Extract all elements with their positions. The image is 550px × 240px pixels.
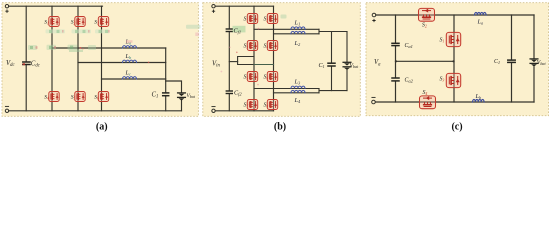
mosfet S1 (b) bbox=[247, 14, 257, 24]
mosfet S3 (c) bbox=[446, 73, 460, 87]
svg-text:L3: L3 bbox=[294, 78, 301, 85]
mosfet S3 bbox=[98, 17, 108, 27]
wire mid jog (b) bbox=[238, 57, 254, 65]
wire leg 3 (a) bbox=[101, 6, 103, 111]
speck red row2 (b) bbox=[236, 52, 238, 54]
capacitor Cf1 bbox=[226, 29, 232, 32]
wire phase a (a) bbox=[52, 47, 166, 49]
svg-text:Vbat: Vbat bbox=[350, 63, 360, 69]
speck red wire1 (a) bbox=[80, 47, 84, 50]
battery Vbat (c) bbox=[530, 59, 538, 67]
speck pink row1 (b) bbox=[258, 28, 260, 30]
speck green under wire1 (a) bbox=[69, 50, 83, 52]
panel (c) background bbox=[366, 3, 549, 116]
inductor Lb bbox=[123, 60, 137, 62]
mosfet S5 bbox=[75, 92, 85, 102]
terminal - (a) bbox=[5, 106, 8, 112]
wire mid link A-B (b) bbox=[254, 64, 274, 66]
mosfet S2 bbox=[75, 17, 85, 27]
inductor Lc bbox=[123, 77, 137, 79]
battery Vbat (a) bbox=[178, 93, 186, 101]
wire leg B (b) bbox=[273, 6, 275, 111]
speck pink left (b) bbox=[221, 71, 223, 73]
mosfet S6 (b) bbox=[267, 72, 277, 82]
gate annotation g3 bbox=[95, 29, 110, 33]
wire top rail (a) bbox=[9, 5, 103, 7]
wire right rail (c) bbox=[533, 15, 535, 102]
capacitor Ca2 bbox=[392, 78, 399, 81]
mosfet S4 (c) horizontal bbox=[420, 96, 436, 109]
speck green row1 (b) bbox=[281, 15, 287, 19]
gate annotation g2 bbox=[72, 29, 92, 33]
mosfet S3 (b) bbox=[247, 41, 257, 51]
svg-text:Lc: Lc bbox=[125, 70, 131, 77]
speck pink label La (a) bbox=[126, 40, 133, 43]
svg-text:Lb: Lb bbox=[475, 93, 482, 100]
speck pink Cf (b) bbox=[229, 47, 231, 49]
capacitor Cdc bbox=[23, 62, 30, 65]
mosfet S8 (b) bbox=[267, 100, 277, 110]
capacitor C1 (c) bbox=[508, 60, 515, 62]
wire phase b (a) bbox=[78, 62, 166, 64]
wire phase c (a) bbox=[102, 78, 166, 80]
wire leg A (b) bbox=[253, 6, 255, 111]
capacitor Ca1 bbox=[392, 43, 399, 45]
wire mid link Ca-S (c) bbox=[395, 60, 455, 62]
mosfet S2 (b) bbox=[267, 14, 277, 24]
inductor La (c) bbox=[475, 12, 487, 15]
wire join top pair (b) bbox=[319, 29, 347, 34]
svg-text:L2: L2 bbox=[294, 40, 301, 47]
wire L1 (b) bbox=[254, 28, 319, 30]
terminal + (c) bbox=[372, 13, 376, 22]
svg-text:Vbat: Vbat bbox=[537, 60, 547, 66]
wire leg 1 (a) bbox=[51, 6, 53, 111]
inductor L4 bbox=[291, 90, 305, 92]
wire bottom rail (b) bbox=[215, 110, 273, 112]
wire S leg (c) bbox=[453, 15, 455, 102]
inductor L1 bbox=[291, 27, 305, 29]
svg-text:(b): (b) bbox=[274, 122, 286, 133]
mosfet S1 (c) bbox=[446, 32, 460, 46]
wire bottom rail (c) bbox=[375, 101, 534, 103]
wire L4 (b) bbox=[274, 92, 320, 94]
wire Cdc branch (a) bbox=[25, 6, 27, 111]
wire output cap branch (b) bbox=[331, 32, 333, 91]
wire bottom rail (a) bbox=[9, 110, 182, 112]
ghost green patches wire1 (a) bbox=[28, 45, 96, 50]
svg-text:Cf2: Cf2 bbox=[234, 90, 242, 97]
wire C1 branch (c) bbox=[511, 15, 513, 102]
wire mid stub (b) bbox=[229, 61, 237, 63]
svg-text:La: La bbox=[477, 18, 484, 25]
svg-text:Ca1: Ca1 bbox=[405, 43, 413, 49]
wire join bottom pair (b) bbox=[319, 89, 347, 93]
wire top rail (b) bbox=[215, 5, 273, 7]
svg-text:C1: C1 bbox=[319, 62, 325, 69]
terminal - (b) bbox=[212, 107, 215, 113]
svg-text:L1: L1 bbox=[294, 19, 301, 26]
svg-text:(a): (a) bbox=[96, 122, 108, 133]
inductor La bbox=[123, 46, 137, 48]
speck green ghost right (a) bbox=[186, 25, 201, 29]
mosfet S4 (b) bbox=[267, 41, 277, 51]
inductor L2 bbox=[291, 31, 305, 33]
wire L3 (b) bbox=[254, 88, 319, 90]
speck red coil2 right (a) bbox=[148, 62, 150, 64]
terminal + (a) bbox=[5, 5, 8, 13]
speck pink row3 (b) bbox=[257, 84, 259, 86]
wire battery branch (a) bbox=[166, 81, 182, 111]
capacitor C1 (a) bbox=[163, 93, 169, 96]
mosfet S7 (b) bbox=[247, 100, 257, 110]
label Cf1 bbox=[233, 26, 246, 35]
mosfet S6 bbox=[98, 92, 108, 102]
terminal - (c) bbox=[372, 97, 376, 103]
svg-text:(c): (c) bbox=[451, 122, 462, 133]
wire leg 2 (a) bbox=[77, 6, 79, 111]
svg-text:Cf1: Cf1 bbox=[234, 28, 242, 35]
mosfet S4 bbox=[49, 92, 59, 102]
wire top rail (c) bbox=[376, 14, 534, 16]
svg-text:L4: L4 bbox=[294, 97, 301, 104]
battery Vbat (b) bbox=[343, 62, 351, 70]
mosfet S5 (b) bbox=[247, 72, 257, 82]
inductor Lb (c) bbox=[473, 99, 485, 102]
wire output rail (a) bbox=[165, 48, 167, 111]
inductor L3 bbox=[291, 86, 305, 88]
wire battery branch (b) bbox=[346, 32, 348, 91]
capacitor C1 (b) bbox=[328, 63, 335, 66]
panel (b) background bbox=[203, 3, 360, 117]
wire Ca branch (c) bbox=[395, 15, 397, 102]
svg-text:Ca2: Ca2 bbox=[405, 77, 414, 83]
mosfet S2 (c) horizontal bbox=[419, 8, 435, 21]
wire flying-cap branch (b) bbox=[228, 6, 230, 111]
terminal + (b) bbox=[212, 5, 215, 13]
capacitor Cf2 bbox=[226, 91, 232, 94]
svg-text:C1: C1 bbox=[494, 59, 500, 65]
panel (a) background bbox=[2, 3, 198, 117]
wire L2 (b) bbox=[274, 33, 320, 35]
gate annotation g1 bbox=[46, 29, 66, 33]
speck pink gap ghost (b) bbox=[195, 33, 199, 37]
mosfet S1 bbox=[49, 17, 59, 27]
svg-text:Lb: Lb bbox=[125, 53, 132, 60]
